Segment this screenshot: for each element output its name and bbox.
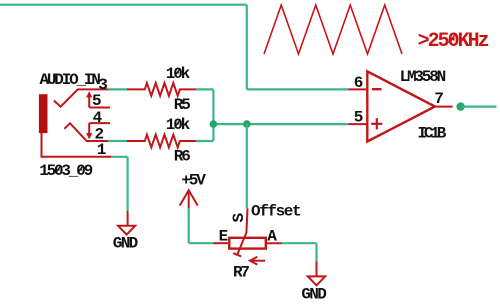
wire +5V to R7 E bbox=[189, 242, 214, 244]
R7 adjust arrow bbox=[252, 260, 265, 262]
svg-text:R5: R5 bbox=[174, 96, 190, 114]
svg-text:AUDIO_IN: AUDIO_IN bbox=[40, 71, 101, 89]
svg-text:IC1B: IC1B bbox=[418, 125, 447, 143]
wire R5 down to junction bbox=[212, 89, 214, 124]
R7 pin E stub bbox=[214, 242, 230, 244]
jack tip contact (pin 3) bbox=[54, 89, 108, 106]
connector J1 1503_09 jack body bbox=[39, 94, 48, 133]
op-amp pin 6 stub bbox=[348, 88, 366, 90]
potentiometer R7 body bbox=[229, 238, 265, 249]
svg-text:10k: 10k bbox=[166, 65, 191, 83]
R7 wiper S lead bbox=[237, 209, 247, 255]
resistor R6 bbox=[127, 135, 196, 148]
svg-text:GND: GND bbox=[113, 235, 138, 253]
wire pin1 to ground run bbox=[111, 156, 128, 158]
svg-text:LM358N: LM358N bbox=[400, 68, 446, 86]
junction dot output bbox=[456, 102, 464, 110]
svg-text:R6: R6 bbox=[174, 148, 190, 166]
wire pin3 to R5 bbox=[108, 88, 127, 90]
wire down to GND (right) bbox=[315, 243, 317, 261]
pin 5 stub bbox=[89, 107, 110, 109]
svg-text:1503_09: 1503_09 bbox=[39, 162, 92, 180]
wire junction B down to R7 wiper bbox=[246, 124, 248, 209]
junction dot A bbox=[210, 120, 218, 128]
resistor R5 bbox=[127, 83, 196, 96]
supply symbol +5V arrow bbox=[180, 190, 198, 205]
pin 5 switch arrow up bbox=[88, 97, 90, 108]
wire R5 out bbox=[196, 88, 214, 90]
non-inverting input plus sign bbox=[371, 123, 382, 125]
wire R6 out bbox=[196, 140, 214, 142]
wire net triangle-out top horizontal bbox=[0, 4, 247, 6]
slashed zero marks (Eagle font style) bbox=[449, 35, 455, 43]
op-amp output pin 7 stub bbox=[435, 106, 453, 108]
wire junction row to op-amp pin 5 bbox=[213, 123, 348, 125]
wire R6 up to junction bbox=[212, 124, 214, 141]
pin 4 stub bbox=[89, 122, 110, 124]
svg-text:10k: 10k bbox=[166, 116, 191, 134]
R7 pin A stub bbox=[266, 242, 282, 244]
R7 wiper end tick bbox=[233, 253, 241, 256]
triangle waveform annotation bbox=[264, 5, 402, 54]
pin 4 switch arrow down bbox=[88, 123, 90, 134]
pin 1 sleeve lead bbox=[42, 133, 112, 157]
wire pin2 to R6 bbox=[108, 140, 127, 142]
svg-text:Offset: Offset bbox=[251, 202, 301, 220]
wire net triangle-out vertical drop bbox=[246, 5, 248, 90]
inverting input minus sign bbox=[372, 88, 382, 90]
wire net to op-amp pin 6 bbox=[247, 88, 349, 90]
wire R7 A to GND run bbox=[282, 242, 317, 244]
wire output net bbox=[461, 105, 497, 107]
svg-text:+5V: +5V bbox=[181, 172, 206, 190]
jack ring contact (pin 2) bbox=[64, 123, 108, 141]
ground symbol (left) bbox=[118, 226, 135, 235]
wire down to GND bbox=[126, 157, 128, 211]
svg-text:R7: R7 bbox=[233, 263, 249, 281]
ground stub (left) bbox=[127, 211, 129, 226]
ground stub (right) bbox=[316, 261, 318, 276]
junction dot B bbox=[243, 120, 251, 128]
svg-text:>250KHz: >250KHz bbox=[418, 30, 489, 53]
svg-text:GND: GND bbox=[301, 285, 326, 303]
op-amp U1 IC1B triangle bbox=[367, 71, 435, 141]
ground symbol (right) bbox=[308, 276, 325, 285]
wire +5V down bbox=[188, 208, 190, 243]
op-amp pin 5 stub bbox=[348, 123, 366, 125]
